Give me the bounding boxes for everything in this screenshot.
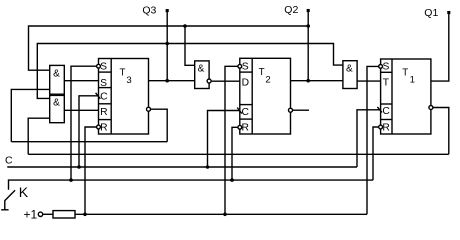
label Q1 bbox=[424, 7, 438, 19]
T1 inverted output bubble bbox=[429, 106, 433, 110]
svg-text:C: C bbox=[100, 92, 108, 103]
wire T3 S1 feed from bus4 bbox=[71, 66, 96, 180]
flip-flop T2 outline bbox=[240, 58, 291, 134]
T2 pin S label bbox=[242, 61, 249, 72]
wire T3 C feed from bus3 bbox=[79, 96, 99, 167]
node lineA-AND3 junction bbox=[183, 24, 187, 28]
svg-text:S: S bbox=[242, 61, 249, 72]
T1 pin T label bbox=[383, 77, 390, 88]
T1 pin separator 1 bbox=[381, 71, 392, 73]
switch K bottom bar bbox=[1, 209, 8, 211]
label K bbox=[19, 184, 29, 200]
AND gate D2 box bbox=[50, 95, 65, 122]
svg-text:C: C bbox=[5, 155, 13, 167]
T3 pin separator 2 bbox=[99, 87, 112, 89]
svg-text:R: R bbox=[382, 122, 389, 133]
wire line A (Q2 to AND1 input) bbox=[29, 26, 309, 70]
svg-text:S: S bbox=[100, 78, 107, 89]
T3 pin C label bbox=[100, 92, 108, 103]
wire T1 C feed from bus3 bbox=[357, 110, 381, 167]
T2 R input bubble bbox=[238, 125, 242, 129]
T2 pin D label bbox=[242, 78, 249, 89]
T3 label bbox=[120, 67, 132, 86]
svg-text:&: & bbox=[53, 98, 60, 109]
T1 pin separator 2 bbox=[381, 103, 392, 105]
wire T2 R feed from bus4 bbox=[232, 127, 238, 180]
T3 pin separator 1 bbox=[99, 71, 112, 73]
wire AND2 output to T3 R bbox=[64, 109, 98, 111]
svg-text:R: R bbox=[100, 123, 107, 134]
T3 C dynamic slash bbox=[96, 93, 101, 99]
svg-text:C: C bbox=[382, 106, 390, 117]
flip-flop T3 divider bbox=[110, 59, 112, 135]
wire Q1 to T1 Q output bbox=[431, 13, 449, 82]
wire AND1 output to T3 S bbox=[64, 80, 98, 82]
svg-text:C: C bbox=[241, 107, 249, 118]
AND gate D1 symbol bbox=[53, 69, 60, 80]
AND gate D3 box bbox=[195, 61, 209, 89]
node Q3-lineB junction bbox=[165, 42, 169, 46]
svg-text:S: S bbox=[100, 62, 107, 73]
terminal Q3 bbox=[166, 9, 169, 12]
svg-text:R: R bbox=[100, 107, 107, 118]
svg-text:1: 1 bbox=[410, 75, 415, 86]
wire AND4 output to T1 T bbox=[357, 80, 381, 82]
T2 S input bubble bbox=[238, 64, 242, 68]
T2 inverted output bubble bbox=[289, 108, 293, 112]
T2 pin separator 2 bbox=[240, 104, 252, 106]
T3 pin separator 4 bbox=[99, 119, 112, 121]
T1 C dynamic slash bbox=[377, 107, 382, 112]
wire +1 to resistor bbox=[43, 213, 53, 215]
T3 pin S2 label bbox=[100, 78, 107, 89]
terminal +1 circle bbox=[38, 212, 42, 216]
wire bus4 K line bbox=[9, 180, 374, 190]
label plus1 bbox=[24, 207, 38, 221]
T2 C dynamic slash bbox=[237, 108, 242, 114]
T3 Qbar wire to bus1 bbox=[151, 109, 168, 142]
svg-text:T: T bbox=[402, 67, 408, 78]
AND gate D2 symbol bbox=[53, 98, 60, 109]
wire AND3 output to T2 D bbox=[211, 80, 240, 82]
T1 pin S label bbox=[382, 61, 389, 72]
terminal Q1 bbox=[447, 11, 450, 14]
T1 pin R label bbox=[382, 122, 389, 133]
svg-text:T: T bbox=[259, 67, 265, 78]
T1 label bbox=[402, 67, 415, 85]
T1 Qbar wire to bus2 bbox=[433, 108, 449, 155]
node T2-R on bus4 bbox=[230, 178, 234, 182]
svg-text:Q2: Q2 bbox=[284, 4, 298, 16]
T3 pin separator 3 bbox=[99, 103, 112, 105]
wire T1 S feed from bus5 bbox=[367, 66, 378, 214]
svg-text:+1: +1 bbox=[24, 207, 38, 221]
label Q2 bbox=[284, 4, 298, 16]
wire bus5 +1 line bbox=[75, 213, 367, 215]
T2 pin C label bbox=[241, 107, 249, 118]
T3 Q output wire to AND3 bbox=[149, 80, 195, 82]
svg-text:T: T bbox=[383, 77, 390, 88]
flip-flop T3 outline bbox=[99, 59, 149, 135]
wire line B (Q3 to AND2 and AND4) bbox=[37, 44, 343, 99]
T3 pin R2 label bbox=[100, 123, 107, 134]
resistor R1 bbox=[53, 211, 75, 218]
T2 pin separator 3 bbox=[240, 118, 252, 120]
node T3-S1 on bus4 bbox=[69, 178, 73, 182]
wire Q2 vertical bbox=[307, 11, 309, 81]
T2 Qbar stub wire bbox=[293, 109, 309, 111]
T1 pin C label bbox=[382, 106, 390, 117]
node T3-R2 on bus5 bbox=[83, 213, 87, 217]
switch K blade bbox=[5, 190, 15, 200]
node riser on bus5 bbox=[223, 213, 227, 217]
flip-flop T1 divider bbox=[391, 59, 393, 134]
wire lineA drop to AND3 input bbox=[185, 26, 195, 65]
node T3-C on bus3 bbox=[77, 165, 81, 169]
wire riser bus5 to T2 S bbox=[225, 66, 238, 214]
AND gate D4 box bbox=[343, 61, 357, 89]
T2 pin separator 1 bbox=[240, 71, 252, 73]
T2 label bbox=[259, 67, 271, 86]
node Q3-T3out junction bbox=[165, 79, 169, 83]
svg-text:Q3: Q3 bbox=[142, 5, 156, 17]
wire AND2 input2 from bus2 bbox=[28, 118, 50, 154]
T3 R2 input bubble bbox=[97, 125, 101, 129]
wire T3 R2 feed from bus5 bbox=[85, 127, 96, 214]
flip-flop T2 divider bbox=[251, 58, 253, 134]
T3 inverted output bubble bbox=[147, 107, 151, 111]
wire bus2 T1-Qbar line bbox=[28, 153, 449, 155]
svg-text:&: & bbox=[198, 63, 205, 74]
T1 pin separator 3 bbox=[381, 119, 392, 121]
wire Q3 vertical bbox=[166, 11, 168, 81]
svg-text:T: T bbox=[120, 67, 126, 78]
wire bus1 bbox=[11, 141, 167, 143]
svg-text:R: R bbox=[241, 123, 248, 134]
node T2-C on bus3 bbox=[206, 165, 210, 169]
svg-text:Q1: Q1 bbox=[424, 7, 438, 19]
flip-flop T1 outline bbox=[381, 59, 431, 134]
svg-text:K: K bbox=[19, 184, 29, 200]
T1 S input bubble bbox=[379, 65, 383, 69]
switch K bottom lead bbox=[4, 200, 6, 210]
label Q3 bbox=[142, 5, 156, 17]
AND gate D3 symbol bbox=[198, 63, 205, 74]
node Q2-lineA junction bbox=[306, 24, 310, 28]
svg-text:S: S bbox=[382, 61, 389, 72]
T3 pin S1 label bbox=[100, 62, 107, 73]
svg-text:&: & bbox=[53, 69, 60, 80]
wire bus3 C clock line bbox=[7, 166, 357, 168]
T2 pin R label bbox=[241, 123, 248, 134]
AND gate D4 symbol bbox=[346, 64, 353, 75]
svg-text:&: & bbox=[346, 64, 353, 75]
T3 pin R1 label bbox=[100, 107, 107, 118]
label C bbox=[5, 155, 13, 167]
svg-text:2: 2 bbox=[265, 75, 270, 86]
terminal Q2 bbox=[307, 9, 310, 12]
svg-text:D: D bbox=[242, 78, 249, 89]
T2 Q output wire to AND4 bbox=[291, 80, 343, 82]
node Q2-T2out junction bbox=[306, 79, 310, 83]
AND gate D1 box bbox=[50, 65, 65, 94]
wire T2 C feed from bus3 bbox=[208, 111, 240, 168]
AND3 output bubble bbox=[207, 79, 211, 83]
wire AND1 input2 from bus1 bbox=[11, 89, 49, 141]
T3 S1 input bubble bbox=[97, 64, 101, 68]
wire T1 R feed from bus4 bbox=[373, 127, 378, 180]
T1 R input bubble bbox=[379, 125, 383, 129]
svg-text:3: 3 bbox=[126, 75, 131, 86]
